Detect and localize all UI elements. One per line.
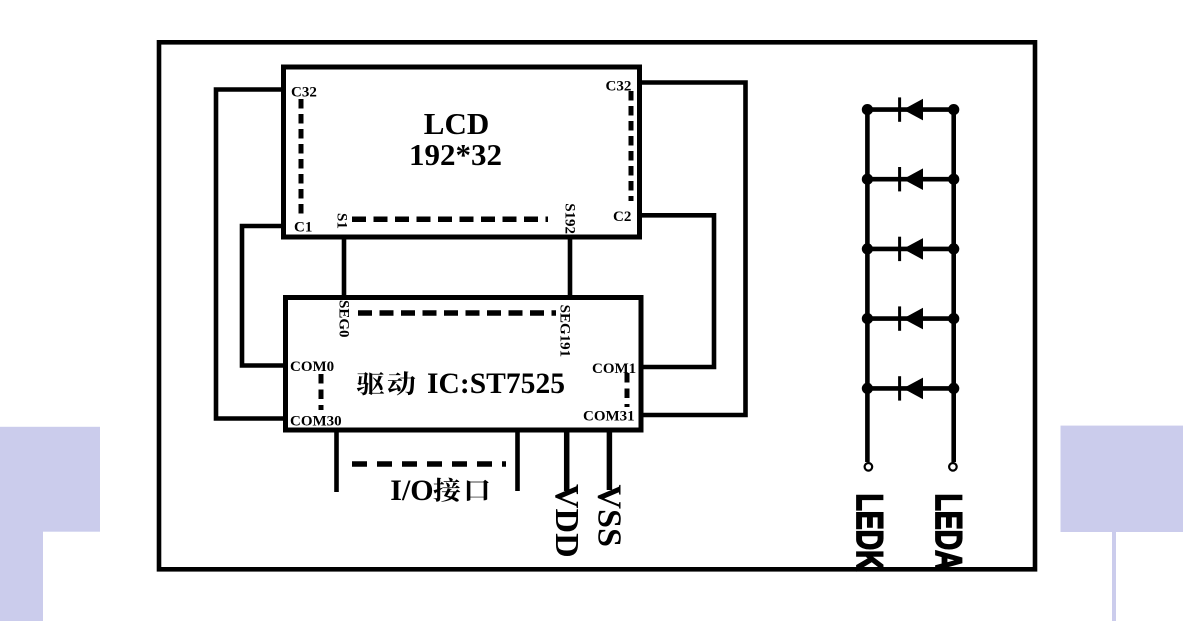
svg-text:S1: S1 [334, 213, 350, 229]
svg-text:SEG191: SEG191 [557, 305, 573, 358]
svg-text:LCD: LCD [424, 106, 489, 141]
svg-text:C32: C32 [606, 78, 632, 94]
svg-text:I/O: I/O [390, 474, 433, 507]
svg-text:C32: C32 [291, 85, 317, 101]
svg-text:LEDK: LEDK [849, 494, 890, 571]
svg-text:S192: S192 [562, 203, 578, 234]
svg-text:LEDA: LEDA [928, 494, 969, 571]
svg-text:IC:ST7525: IC:ST7525 [427, 368, 565, 400]
svg-text:COM30: COM30 [290, 414, 342, 430]
svg-text:COM0: COM0 [290, 359, 334, 375]
svg-text:SEG0: SEG0 [336, 300, 352, 338]
svg-text:COM1: COM1 [592, 361, 636, 377]
svg-text:COM31: COM31 [583, 409, 635, 425]
svg-text:C1: C1 [294, 220, 312, 236]
svg-text:192*32: 192*32 [409, 137, 502, 172]
svg-text:C2: C2 [613, 209, 631, 225]
svg-text:VDD: VDD [548, 484, 585, 558]
svg-text:VSS: VSS [591, 485, 628, 547]
